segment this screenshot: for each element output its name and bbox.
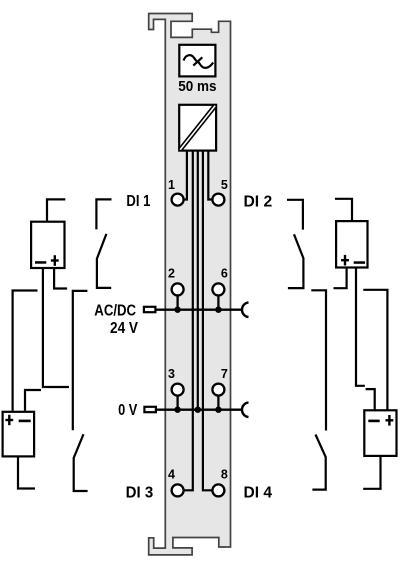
svg-text:2: 2	[168, 266, 175, 280]
svg-text:DI 4: DI 4	[244, 484, 273, 501]
svg-text:6: 6	[221, 266, 228, 280]
svg-text:DI 2: DI 2	[244, 194, 273, 211]
svg-text:4: 4	[168, 467, 175, 481]
svg-text:DI 3: DI 3	[126, 485, 154, 502]
svg-text:5: 5	[221, 178, 228, 192]
svg-text:DI 1: DI 1	[126, 193, 150, 210]
svg-text:24 V: 24 V	[110, 320, 139, 337]
svg-text:8: 8	[221, 467, 228, 481]
svg-text:3: 3	[168, 367, 175, 381]
svg-text:7: 7	[221, 367, 228, 381]
svg-text:50 ms: 50 ms	[178, 79, 216, 95]
svg-text:0 V: 0 V	[118, 402, 138, 419]
svg-text:1: 1	[168, 178, 175, 192]
svg-text:AC/DC: AC/DC	[94, 303, 136, 320]
